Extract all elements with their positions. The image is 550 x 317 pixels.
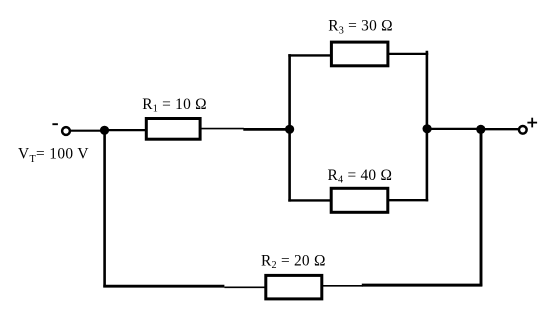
- source positive terminal circle: [519, 126, 527, 134]
- wire from node C to node D: [427, 128, 482, 130]
- bottom wire right thick segment: [362, 284, 483, 287]
- svg-text:R3 = 30 Ω: R3 = 30 Ω: [328, 18, 393, 37]
- resistor R2: [266, 275, 322, 299]
- wire from negative terminal to node A: [70, 130, 106, 132]
- wire node B down to bottom branch: [288, 129, 291, 202]
- wire from R4 to right vertical: [388, 199, 429, 201]
- right parallel vertical wire (top): [426, 51, 429, 130]
- right parallel vertical wire (bottom): [426, 128, 429, 201]
- wire from node D to positive terminal: [481, 128, 519, 130]
- source negative terminal circle: [62, 127, 70, 135]
- wire from node A to R1: [105, 129, 147, 131]
- node D (bottom branch tap): [476, 125, 485, 134]
- wire right side up to node D: [480, 129, 483, 286]
- bottom wire thin segment to R2: [224, 286, 265, 288]
- wire bottom-left corner to R4: [288, 199, 331, 201]
- svg-text:R4 = 40 Ω: R4 = 40 Ω: [328, 167, 393, 186]
- node A: [100, 126, 109, 135]
- svg-text:R1 = 10 Ω: R1 = 10 Ω: [142, 96, 207, 115]
- source positive terminal plus sign: [527, 118, 537, 128]
- resistor R1: [146, 119, 200, 140]
- bottom wire left thick segment: [103, 285, 224, 288]
- node B (left parallel junction): [285, 125, 294, 134]
- source negative terminal minus sign: [52, 123, 58, 125]
- bottom wire thin segment from R2: [323, 285, 363, 287]
- wire from R1 to midpoint (thin): [202, 128, 244, 130]
- wire node B up to top branch: [288, 54, 291, 130]
- wire node A down left side: [103, 129, 106, 288]
- resistor R3: [331, 42, 388, 66]
- svg-text:VT= 100 V: VT= 100 V: [18, 146, 89, 165]
- resistor R4: [331, 188, 388, 212]
- node C (right parallel junction): [423, 124, 432, 133]
- svg-text:R2 = 20 Ω: R2 = 20 Ω: [261, 253, 326, 272]
- wire from midpoint to node B (thick): [243, 128, 290, 131]
- wire top-left corner to R3: [288, 54, 331, 56]
- wire from R3 to right vertical: [388, 53, 428, 55]
